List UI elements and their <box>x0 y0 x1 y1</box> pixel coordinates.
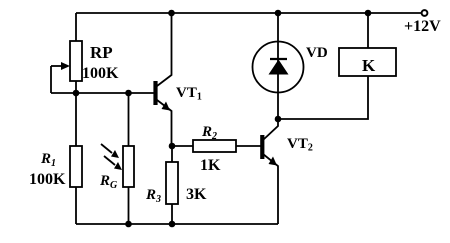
svg-text:100K: 100K <box>82 65 119 82</box>
diode VD cathode bar <box>270 58 287 60</box>
wire R1 bottom lead <box>75 187 77 224</box>
light arrow 2 into RG <box>104 156 122 170</box>
wire relay K top lead <box>367 13 369 48</box>
svg-text:1K: 1K <box>200 157 221 174</box>
wire VD column rail to node <box>277 13 279 119</box>
wire relay K bottom lead <box>278 76 368 119</box>
wire R1 top lead <box>75 93 77 146</box>
wire VT2 collector <box>263 119 278 140</box>
junction node on rail at VD <box>275 10 282 17</box>
svg-text:+12V: +12V <box>404 18 441 35</box>
wire RG top lead <box>128 93 130 146</box>
junction node VD / VT2 collector / K <box>275 116 282 123</box>
svg-text:R1: R1 <box>40 151 56 169</box>
light arrow 1 into RG <box>101 144 119 158</box>
wire R2 right lead to VT2 base <box>236 145 261 147</box>
transistor VT1 <box>153 81 170 111</box>
junction node RP/R1 <box>73 90 80 97</box>
potentiometer RP body <box>70 41 82 81</box>
wire R3 bottom lead <box>171 204 173 224</box>
junction node on rail at relay K <box>365 10 372 17</box>
junction node RG bottom on rail <box>125 221 132 228</box>
+12V terminal <box>422 10 428 16</box>
wire RP bottom to base node line <box>75 81 77 93</box>
relay K body <box>339 48 396 76</box>
wire top +12V rail <box>76 12 421 14</box>
svg-text:R3: R3 <box>145 187 161 205</box>
resistor R2 body <box>193 140 236 152</box>
junction node RG top <box>125 90 132 97</box>
resistor R1 body <box>70 146 82 187</box>
wire VT1 emitter to node <box>157 100 172 146</box>
wire R3 top lead <box>171 146 173 162</box>
svg-text:K: K <box>362 56 376 75</box>
wire VT2 emitter to bottom rail <box>263 154 278 224</box>
resistor R3 body <box>166 162 178 204</box>
transistor VT2 <box>260 135 277 166</box>
wire base line (wiper/R1/RG to VT1 base) <box>51 92 155 94</box>
junction node on rail at VT1 collector <box>168 10 175 17</box>
diode VD circle <box>253 42 304 93</box>
diode VD triangle <box>269 60 289 75</box>
svg-text:VT1: VT1 <box>176 85 202 103</box>
svg-text:VT2: VT2 <box>287 136 313 154</box>
wire R2 left lead <box>172 145 194 147</box>
svg-text:R2: R2 <box>201 124 217 142</box>
svg-text:3K: 3K <box>186 186 207 203</box>
wire RG bottom lead <box>128 187 130 224</box>
photoresistor RG body <box>123 146 134 187</box>
junction node VT1 emitter / R2 / R3 <box>169 143 176 150</box>
wire left column: rail to RP top <box>75 13 77 41</box>
potentiometer RP wiper arrow <box>51 62 70 70</box>
svg-text:RG: RG <box>99 173 118 191</box>
svg-text:100K: 100K <box>29 171 66 188</box>
svg-text:RP: RP <box>90 43 113 62</box>
wire bottom rail <box>76 223 278 225</box>
svg-text:VD: VD <box>306 45 328 61</box>
wire RP wiper down-lead <box>50 66 52 93</box>
wire VT1 collector to rail <box>157 13 172 86</box>
junction node R3 bottom on rail <box>169 221 176 228</box>
